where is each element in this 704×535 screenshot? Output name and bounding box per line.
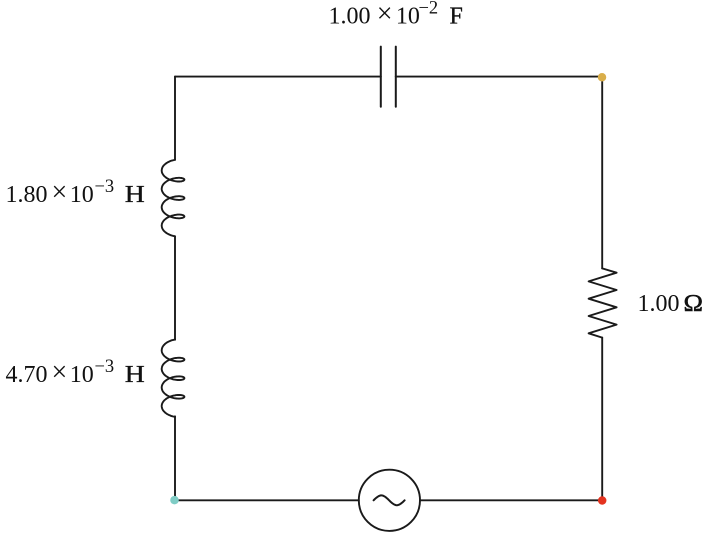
wire top-right segment — [396, 76, 602, 78]
AC source V1 circle — [359, 470, 420, 531]
node dot top-right (gold) — [598, 73, 607, 82]
inductor L2 coil — [162, 340, 185, 417]
node dot bottom-right (red) — [598, 496, 607, 505]
inductor L1 coil — [162, 160, 185, 237]
wire left lower — [174, 416, 176, 500]
svg-text:1.80×10−3H: 1.80×10−3H — [6, 177, 145, 208]
wire right upper — [601, 77, 603, 269]
wire top-left segment — [175, 76, 381, 78]
capacitor C1 plates — [381, 47, 396, 107]
wire left upper — [174, 77, 176, 160]
wire left middle — [174, 236, 176, 339]
wire bottom-left segment — [175, 499, 359, 501]
svg-text:1.00×10−2F: 1.00×10−2F — [329, 0, 463, 30]
svg-text:1.00 Ω: 1.00 Ω — [638, 291, 704, 317]
AC source sine symbol — [374, 495, 405, 505]
node dot bottom-left (teal) — [170, 496, 179, 505]
wire bottom-right segment — [420, 499, 602, 501]
wire right lower — [601, 338, 603, 501]
resistor R1 zigzag — [589, 268, 617, 337]
svg-text:4.70×10−3H: 4.70×10−3H — [6, 357, 145, 388]
